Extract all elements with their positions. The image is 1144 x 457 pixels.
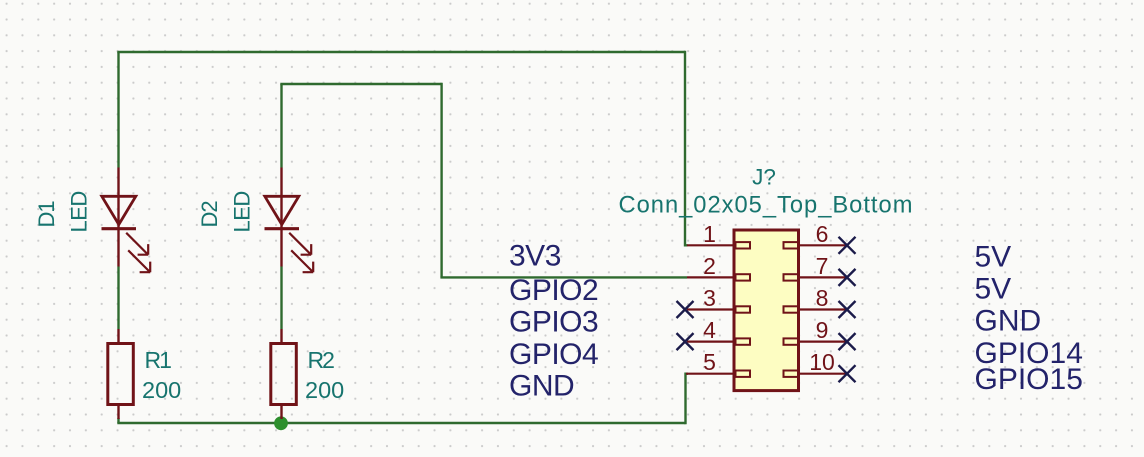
- pin 10: [784, 349, 846, 377]
- resistor R1: [108, 329, 134, 419]
- net label GPIO3: [509, 306, 598, 339]
- svg-text:5: 5: [703, 349, 716, 375]
- svg-text:LED: LED: [66, 191, 91, 232]
- value 200 (R1): [142, 377, 181, 403]
- net label 3V3: [509, 240, 561, 273]
- reference J?: [752, 165, 776, 190]
- net label GPIO15: [975, 363, 1083, 396]
- svg-text:9: 9: [816, 317, 829, 343]
- no-connect X pin 9: [839, 333, 856, 350]
- wire: D1 cathode to R1: [117, 267, 119, 330]
- pin 6: [784, 221, 846, 249]
- pin 7: [784, 253, 846, 281]
- svg-text:R1: R1: [145, 347, 172, 373]
- pin 9: [784, 317, 846, 345]
- net label GND (right): [975, 305, 1042, 338]
- reference D1: [34, 201, 59, 228]
- LED D2: [265, 168, 314, 273]
- wire: D2 cathode to R2: [280, 267, 282, 330]
- svg-text:6: 6: [816, 221, 829, 247]
- value LED (D2): [229, 191, 254, 232]
- svg-text:D2: D2: [197, 201, 222, 228]
- wire: bottom rail up to pin 5: [686, 374, 689, 425]
- junction at R2 bottom: [274, 416, 288, 430]
- svg-text:D1: D1: [34, 201, 59, 228]
- wire: D2 anode up to second rail: [280, 84, 282, 168]
- no-connect X pin 4: [677, 333, 694, 350]
- svg-text:GND: GND: [975, 305, 1042, 338]
- svg-text:GPIO3: GPIO3: [509, 306, 598, 339]
- no-connect X pin 8: [839, 301, 856, 318]
- svg-text:5V: 5V: [975, 241, 1012, 274]
- pin 5: [686, 349, 750, 377]
- reference R2: [308, 347, 335, 373]
- wire: top rail horizontal: [117, 51, 685, 53]
- no-connect X pin 3: [677, 301, 694, 318]
- wire: R1 bottom to ground rail: [117, 418, 119, 423]
- wire: second rail horizontal: [280, 83, 441, 85]
- wire: second rail down at x=441.6: [440, 83, 442, 278]
- svg-text:4: 4: [703, 317, 716, 343]
- reference R1: [145, 347, 172, 373]
- wire: top rail down to pin 1: [685, 51, 688, 246]
- net label GPIO14: [975, 337, 1083, 370]
- svg-text:R2: R2: [308, 347, 335, 373]
- pin 2: [687, 253, 750, 281]
- value 200 (R2): [305, 377, 344, 403]
- pin 8: [784, 285, 846, 313]
- svg-text:1: 1: [703, 221, 716, 247]
- svg-text:200: 200: [142, 377, 181, 403]
- value Conn_02x05_Top_Bottom: [619, 193, 914, 219]
- net label GPIO2: [509, 274, 598, 307]
- pin 1: [687, 221, 750, 249]
- net label 5V (pin 7): [975, 273, 1012, 306]
- pin 4: [687, 317, 750, 345]
- svg-text:GPIO2: GPIO2: [509, 274, 598, 307]
- svg-text:Conn_02x05_Top_Bottom: Conn_02x05_Top_Bottom: [619, 193, 914, 219]
- LED D1: [102, 168, 151, 273]
- connector J? body: [734, 230, 799, 391]
- svg-text:J?: J?: [752, 165, 776, 190]
- net label 5V (pin 6): [975, 241, 1012, 274]
- reference D2: [197, 201, 222, 228]
- no-connect X pin 6: [839, 237, 856, 254]
- wire: D1 anode up to top rail: [117, 52, 119, 168]
- svg-text:3V3: 3V3: [509, 240, 561, 273]
- net label GPIO4: [509, 338, 598, 371]
- svg-text:2: 2: [703, 253, 716, 279]
- no-connect X pin 7: [839, 269, 856, 286]
- value LED (D1): [66, 191, 91, 232]
- net label GND (left): [509, 370, 574, 403]
- wire: GPIO2 wire to pin 2: [440, 276, 687, 278]
- svg-text:3: 3: [703, 285, 716, 311]
- svg-text:7: 7: [816, 253, 829, 279]
- no-connect X pin 10: [839, 365, 856, 382]
- svg-text:10: 10: [809, 349, 835, 375]
- svg-text:GPIO15: GPIO15: [975, 363, 1083, 396]
- svg-text:200: 200: [305, 377, 344, 403]
- svg-text:8: 8: [816, 285, 829, 311]
- svg-text:GND: GND: [509, 370, 574, 403]
- wire: bottom rail horizontal: [117, 422, 685, 424]
- svg-text:GPIO4: GPIO4: [509, 338, 598, 371]
- svg-text:5V: 5V: [975, 273, 1012, 306]
- resistor R2: [271, 329, 297, 419]
- pin 3: [687, 285, 750, 313]
- svg-text:LED: LED: [229, 191, 254, 232]
